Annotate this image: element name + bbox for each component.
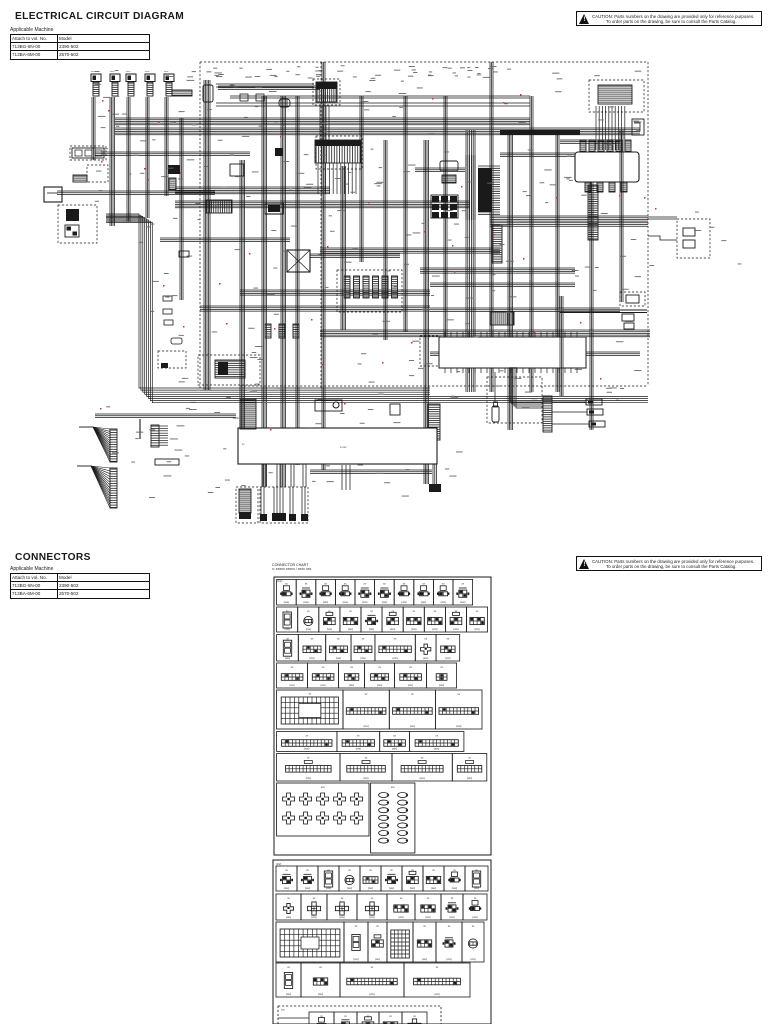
svg-text:xx: xx <box>403 583 406 586</box>
svg-text:(xxx): (xxx) <box>398 916 403 919</box>
svg-text:xx: xx <box>376 925 379 928</box>
svg-text:(xxx): (xxx) <box>303 601 308 604</box>
svg-text:xx: xx <box>365 757 368 760</box>
svg-text:(xxx): (xxx) <box>306 628 311 631</box>
svg-text:xx: xx <box>344 583 347 586</box>
svg-text:(xxx): (xxx) <box>285 628 290 631</box>
svg-text:(xxx): (xxx) <box>290 684 295 687</box>
svg-text:(xxx): (xxx) <box>474 887 479 890</box>
svg-text:(xxx): (xxx) <box>364 725 369 728</box>
svg-text:xx: xx <box>286 610 289 613</box>
svg-text:(xxx): (xxx) <box>311 916 316 919</box>
svg-text:xx: xx <box>453 869 456 872</box>
svg-text:xx: xx <box>468 757 471 760</box>
svg-text:xx: xx <box>394 638 397 641</box>
svg-text:xx: xx <box>305 583 308 586</box>
svg-text:xx: xx <box>393 735 396 738</box>
svg-text:xx: xx <box>432 869 435 872</box>
svg-text:xx: xx <box>362 638 365 641</box>
svg-text:(xxx): (xxx) <box>349 684 354 687</box>
svg-text:xx: xx <box>458 693 461 696</box>
svg-text:xx: xx <box>370 610 373 613</box>
svg-text:(xxx): (xxx) <box>446 958 451 961</box>
svg-text:xx: xx <box>287 897 290 900</box>
svg-text:xxxx: xxxx <box>164 71 169 73</box>
svg-text:xx: xx <box>440 666 443 669</box>
svg-text:xx: xx <box>319 966 322 969</box>
svg-text:xx: xx <box>365 693 368 696</box>
svg-text:xx: xx <box>400 897 403 900</box>
svg-text:(xxx): (xxx) <box>306 777 311 780</box>
svg-text:(xxx): (xxx) <box>425 916 430 919</box>
svg-text:xx: xx <box>313 897 316 900</box>
svg-text:(xxx): (xxx) <box>356 748 361 751</box>
svg-text:(xxx): (xxx) <box>343 601 348 604</box>
svg-text:xx: xx <box>434 610 437 613</box>
svg-text:(xxx): (xxx) <box>326 887 331 890</box>
svg-text:xx: xx <box>371 966 374 969</box>
svg-text:(xxx): (xxx) <box>348 628 353 631</box>
svg-text:(xxx): (xxx) <box>339 916 344 919</box>
svg-text:(xxx): (xxx) <box>284 887 289 890</box>
svg-text:(xxx): (xxx) <box>309 657 314 660</box>
svg-text:(xxx): (xxx) <box>368 887 373 890</box>
svg-text:xx: xx <box>383 583 386 586</box>
svg-text:xx: xx <box>307 757 310 760</box>
svg-text:xx: xx <box>421 757 424 760</box>
svg-text:xx: xx <box>291 666 294 669</box>
svg-text:xx: xx <box>287 966 290 969</box>
svg-text:(xxx): (xxx) <box>369 628 374 631</box>
svg-text:xxxx: xxxx <box>110 71 115 73</box>
svg-text:(xxx): (xxx) <box>347 887 352 890</box>
svg-text:(xxx): (xxx) <box>375 958 380 961</box>
svg-text:(xxx): (xxx) <box>432 628 437 631</box>
svg-text:(xxx): (xxx) <box>472 916 477 919</box>
svg-text:(xxx): (xxx) <box>369 916 374 919</box>
svg-text:xx: xx <box>349 610 352 613</box>
svg-text:(xxx): (xxx) <box>286 916 291 919</box>
svg-text:(xxx): (xxx) <box>323 601 328 604</box>
svg-text:xx: xx <box>435 735 438 738</box>
svg-text:xx: xx <box>327 869 330 872</box>
svg-text:xxxx: xxxx <box>145 71 150 73</box>
svg-text:(xxx): (xxx) <box>449 916 454 919</box>
svg-text:xx: xx <box>364 583 367 586</box>
svg-text:xx: xx <box>427 897 430 900</box>
svg-text:xx: xx <box>371 897 374 900</box>
svg-text:xxx: xxx <box>321 786 326 789</box>
svg-text:xx: xx <box>411 693 414 696</box>
svg-text:xx: xx <box>324 583 327 586</box>
svg-text:xx: xx <box>311 638 314 641</box>
svg-text:(xxx): (xxx) <box>408 684 413 687</box>
svg-text:(xxx): (xxx) <box>439 684 444 687</box>
svg-text:(2/2): (2/2) <box>276 862 281 866</box>
svg-text:xx: xx <box>472 925 475 928</box>
svg-text:xx: xx <box>390 869 393 872</box>
svg-text:xx: xx <box>474 897 477 900</box>
svg-text:(xxx): (xxx) <box>360 657 365 660</box>
svg-text:xx: xx <box>413 1015 416 1018</box>
svg-text:(xxx): (xxx) <box>410 887 415 890</box>
svg-text:xx: xx <box>341 897 344 900</box>
svg-text:xx: xx <box>322 666 325 669</box>
svg-text:xxxx: xxxx <box>126 71 131 73</box>
svg-text:(xxx): (xxx) <box>353 958 358 961</box>
svg-text:xx: xx <box>451 897 454 900</box>
svg-text:(xxx): (xxx) <box>363 777 368 780</box>
svg-text:(xxx): (xxx) <box>318 993 323 996</box>
svg-text:(xxx): (xxx) <box>441 601 446 604</box>
svg-text:(xxx): (xxx) <box>434 993 439 996</box>
svg-text:xx: xx <box>409 666 412 669</box>
svg-text:xx: xx <box>306 869 309 872</box>
svg-text:xx: xx <box>436 966 439 969</box>
svg-text:xx: xx <box>413 610 416 613</box>
svg-text:(xxx): (xxx) <box>470 958 475 961</box>
svg-text:(xxx): (xxx) <box>431 887 436 890</box>
svg-text:(xxx): (xxx) <box>286 993 291 996</box>
svg-text:xxx: xxx <box>281 1009 285 1012</box>
svg-text:(xxx): (xxx) <box>423 657 428 660</box>
svg-text:xx: xx <box>389 1015 392 1018</box>
svg-text:(xxx): (xxx) <box>420 777 425 780</box>
svg-text:(xxx): (xxx) <box>304 748 309 751</box>
svg-text:(xxx): (xxx) <box>382 601 387 604</box>
svg-text:xx: xx <box>309 693 312 696</box>
svg-text:xx: xx <box>337 638 340 641</box>
svg-text:(xxx): (xxx) <box>452 887 457 890</box>
svg-text:xx: xx <box>475 869 478 872</box>
svg-text:xx: xx <box>447 638 450 641</box>
svg-text:xx: xx <box>355 925 358 928</box>
svg-text:(xxx): (xxx) <box>284 601 289 604</box>
svg-text:xx: xx <box>307 610 310 613</box>
svg-text:(xxx): (xxx) <box>456 725 461 728</box>
svg-text:xxx: xxx <box>391 786 396 789</box>
svg-text:xx: xx <box>285 869 288 872</box>
svg-text:(xxx): (xxx) <box>321 684 326 687</box>
svg-text:xx: xx <box>369 869 372 872</box>
svg-text:xx: xx <box>285 583 288 586</box>
svg-text:(xxx): (xxx) <box>460 601 465 604</box>
svg-text:(xxx): (xxx) <box>392 748 397 751</box>
svg-text:xx: xx <box>378 666 381 669</box>
svg-text:(xxx): (xxx) <box>410 725 415 728</box>
svg-text:(xxx): (xxx) <box>389 887 394 890</box>
svg-text:xx: xx <box>442 583 445 586</box>
svg-text:(xxx): (xxx) <box>336 657 341 660</box>
svg-text:xx: xx <box>344 1015 347 1018</box>
svg-text:xx: xx <box>422 583 425 586</box>
svg-text:(xxx): (xxx) <box>327 628 332 631</box>
svg-text:(xxx): (xxx) <box>393 657 398 660</box>
svg-text:xx: xx <box>306 735 309 738</box>
svg-text:(xxx): (xxx) <box>362 601 367 604</box>
svg-text:xx: xx <box>462 583 465 586</box>
svg-text:(xxx): (xxx) <box>475 628 480 631</box>
svg-text:xx: xx <box>476 610 479 613</box>
svg-text:xx: xx <box>448 925 451 928</box>
svg-text:(xxx): (xxx) <box>305 887 310 890</box>
svg-text:(xxx): (xxx) <box>285 657 290 660</box>
svg-text:xx: xx <box>350 666 353 669</box>
svg-text:(xxx): (xxx) <box>411 628 416 631</box>
svg-text:(xxx): (xxx) <box>453 628 458 631</box>
svg-text:(xxx): (xxx) <box>445 657 450 660</box>
svg-text:(xxx): (xxx) <box>369 993 374 996</box>
svg-text:(xxx): (xxx) <box>434 748 439 751</box>
svg-text:xx: xx <box>424 638 427 641</box>
svg-text:(xxx): (xxx) <box>422 958 427 961</box>
svg-text:(xxx): (xxx) <box>467 777 472 780</box>
svg-text:(xxx): (xxx) <box>401 601 406 604</box>
svg-text:(xxx): (xxx) <box>421 601 426 604</box>
svg-text:xx: xx <box>423 925 426 928</box>
svg-text:(xxx): (xxx) <box>377 684 382 687</box>
svg-text:x-xxx: x-xxx <box>340 445 347 449</box>
svg-text:xx: xx <box>357 735 360 738</box>
svg-text:(xxx): (xxx) <box>390 628 395 631</box>
svg-text:xx: xx <box>348 869 351 872</box>
